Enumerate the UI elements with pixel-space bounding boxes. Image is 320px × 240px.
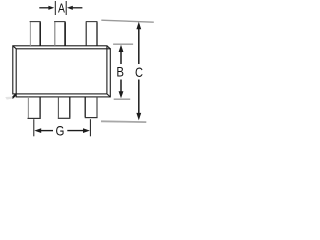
svg-text:A: A [58,1,65,16]
svg-text:C: C [135,64,143,80]
svg-text:B: B [116,64,124,80]
svg-text:G: G [55,123,64,139]
